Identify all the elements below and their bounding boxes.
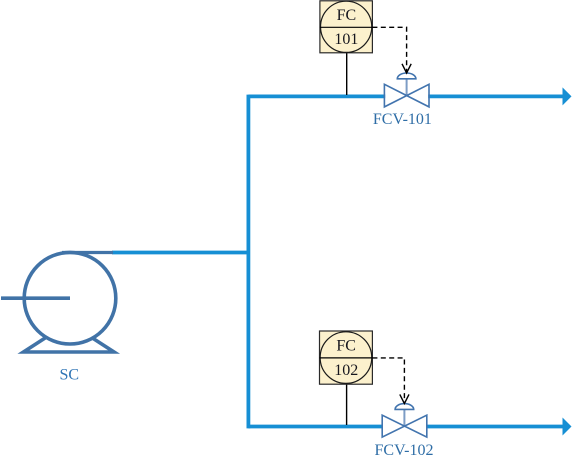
svg-text:FC: FC (337, 7, 357, 24)
svg-text:FCV-101: FCV-101 (373, 111, 432, 128)
svg-text:FCV-102: FCV-102 (375, 442, 434, 459)
svg-text:FC: FC (336, 337, 356, 354)
svg-text:SC: SC (60, 367, 80, 384)
svg-text:101: 101 (334, 31, 358, 48)
svg-text:102: 102 (334, 362, 358, 379)
